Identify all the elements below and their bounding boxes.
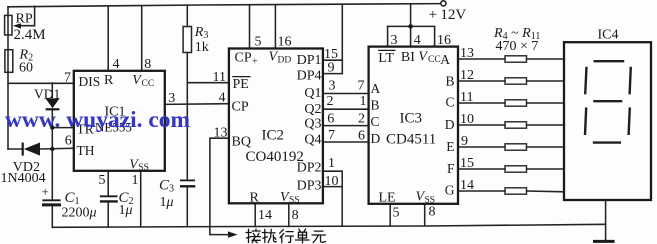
svg-text:2200μ: 2200μ [62, 206, 97, 221]
wire DP4 pin9 [323, 73, 342, 75]
node RP wiper arrow [13, 23, 21, 28]
svg-text:D: D [371, 131, 381, 146]
capacitor C3 plate top [180, 179, 195, 181]
svg-text:+: + [429, 7, 437, 23]
svg-text:D: D [445, 117, 455, 132]
wire TH to C1 [51, 149, 53, 199]
wire left rail [7, 7, 9, 149]
wire RP wiper [20, 6, 35, 25]
wire seg A to IC4 [527, 58, 565, 60]
wire IC3 top bus [388, 25, 435, 27]
svg-text:12V: 12V [440, 7, 466, 23]
svg-text:CP: CP [235, 51, 252, 66]
svg-text:8: 8 [292, 208, 299, 223]
svg-text:VD1: VD1 [34, 86, 60, 101]
svg-text:60: 60 [19, 60, 33, 75]
svg-text:SS: SS [138, 163, 149, 173]
svg-text:SS: SS [289, 195, 300, 205]
diode VD2 cathode bar [22, 143, 24, 156]
svg-text:IC3: IC3 [400, 111, 423, 127]
wire rail to VD2 [8, 148, 23, 150]
wire segment g [593, 100, 622, 102]
svg-text:6: 6 [327, 112, 334, 127]
svg-text:13: 13 [460, 46, 474, 61]
wire seg D [458, 124, 505, 126]
wire seg G to IC4 [527, 190, 565, 193]
wire DP1/DP4 feeder to rail [341, 4, 343, 73]
svg-text:CO40192: CO40192 [246, 149, 304, 165]
wire IC1 pin3 out to CP [165, 103, 229, 106]
svg-text:C: C [371, 114, 380, 129]
svg-text:5: 5 [99, 173, 106, 188]
svg-text:11: 11 [213, 70, 226, 85]
svg-text:13: 13 [214, 126, 228, 141]
svg-text:Q1: Q1 [304, 86, 321, 101]
wire DP3 pin10 [323, 186, 342, 188]
wire Q1 to A [323, 93, 369, 95]
resistor R6 [505, 100, 527, 106]
wire top +12V rail [8, 4, 441, 7]
svg-text:G: G [445, 183, 455, 198]
svg-text:CC: CC [142, 79, 155, 89]
svg-text:Q3: Q3 [304, 117, 321, 132]
wire IC1 pin1 to ground [140, 171, 142, 227]
wire segment d [593, 141, 621, 143]
svg-text:+: + [42, 184, 49, 199]
node junction TR [50, 125, 54, 129]
wire rail to R3 [186, 5, 188, 26]
resistor RP [5, 15, 12, 35]
svg-text:F: F [447, 161, 455, 176]
op-amp U1 boxes: IC outline rectangles [74, 42, 651, 204]
resistor R5 [505, 78, 527, 84]
svg-text:14: 14 [258, 208, 272, 223]
svg-text:LE: LE [379, 191, 396, 206]
svg-text:C: C [445, 95, 454, 110]
diode VD2 [24, 143, 40, 156]
wire IC3 pin3 [387, 26, 389, 46]
svg-text:www. wuyazi. com: www. wuyazi. com [5, 107, 190, 132]
resistor R3 [183, 27, 191, 53]
svg-text:8: 8 [429, 205, 436, 220]
svg-text:5: 5 [393, 206, 400, 221]
wire IC3 pin4 [410, 26, 412, 46]
wire VD1 drop [51, 83, 53, 99]
wire IC4 common to ground [605, 200, 607, 240]
hanzi jie [246, 229, 261, 243]
svg-text:DD: DD [278, 55, 292, 65]
wire IC3 pin5 LE to ground [389, 204, 391, 226]
wire DP2 pin1 [323, 170, 342, 172]
svg-text:PE: PE [233, 77, 249, 92]
wire VD1 to TR [51, 110, 53, 128]
svg-text:9: 9 [461, 134, 468, 149]
svg-text:2: 2 [358, 111, 365, 126]
svg-text:4: 4 [113, 57, 120, 72]
wire IC3 pin16 [434, 26, 436, 46]
svg-text:1: 1 [132, 173, 139, 188]
capacitor C1 plate bottom [42, 203, 61, 206]
svg-text:R: R [250, 191, 260, 206]
op-amp U4 IC4 display box [564, 42, 651, 200]
svg-text:LT: LT [378, 51, 394, 66]
wire segment e [585, 107, 586, 135]
resistor R2 [5, 50, 13, 73]
svg-text:R: R [104, 73, 114, 88]
svg-text:DP2: DP2 [297, 160, 322, 175]
svg-text:B: B [371, 98, 380, 113]
svg-text:1: 1 [360, 94, 367, 109]
hanzi xing [280, 230, 294, 243]
capacitor C1 plate top [42, 199, 60, 201]
wire seg G [458, 190, 505, 192]
svg-text:1N4004: 1N4004 [1, 171, 46, 186]
wire BQ pin13 [210, 138, 230, 234]
svg-text:4: 4 [219, 91, 226, 106]
svg-text:DP3: DP3 [297, 179, 322, 194]
svg-text:4: 4 [414, 33, 421, 48]
wire seg E to IC4 [527, 146, 565, 148]
svg-text:1μ: 1μ [160, 195, 174, 210]
resistor R9 [505, 166, 527, 172]
wire Q2 to B [323, 108, 369, 110]
svg-text:E: E [446, 139, 454, 154]
wire seg F [458, 168, 505, 170]
svg-text:V: V [418, 50, 428, 65]
wire PE pin11 [187, 82, 229, 84]
svg-text:6: 6 [65, 134, 72, 149]
wire C2 to ground rail [107, 203, 109, 227]
svg-text:7: 7 [358, 78, 365, 93]
wire seg A [458, 58, 505, 60]
wire seg B to IC4 [527, 80, 565, 82]
svg-text:DP1: DP1 [297, 53, 322, 68]
wire segment a [594, 60, 625, 62]
wire R3 to PE node [186, 53, 188, 180]
svg-text:DIS: DIS [79, 74, 101, 89]
hanzi zhi [262, 229, 276, 242]
wire DP1 pin15 [323, 59, 342, 61]
svg-text:2.4M: 2.4M [14, 27, 46, 43]
svg-text:1k: 1k [195, 40, 209, 55]
svg-text:A: A [440, 52, 450, 67]
hanzi yuan [312, 231, 326, 242]
svg-text:6: 6 [358, 128, 365, 143]
capacitor C2 plate top [100, 195, 118, 197]
svg-text:8: 8 [144, 57, 151, 72]
svg-text:10: 10 [325, 174, 339, 189]
wire seg F to IC4 [527, 168, 565, 170]
svg-text:CC: CC [428, 55, 441, 65]
wire segment f [585, 67, 586, 95]
resistor R4 [505, 56, 527, 62]
wire seg B [458, 80, 505, 82]
svg-text:RP: RP [16, 11, 33, 26]
wire IC3 supply feeder [410, 4, 412, 26]
wire LT overline [378, 49, 395, 51]
resistor R10 [505, 188, 527, 194]
wire IC2 pin5 [249, 5, 251, 49]
svg-text:IC4: IC4 [598, 28, 619, 43]
resistor R8 [505, 144, 527, 150]
wire DP2/DP3 to ground [341, 171, 343, 226]
svg-text:1: 1 [328, 156, 335, 171]
diode VD1 cathode bar [46, 108, 60, 110]
op-amp U2 IC2 CO40192 box [229, 49, 323, 204]
node junction TH [50, 147, 54, 151]
wire bottom ground rail [52, 224, 605, 227]
op-amp U3 IC3 CD4511 box [369, 47, 458, 204]
svg-text:CD4511: CD4511 [386, 132, 436, 148]
svg-text:12: 12 [460, 68, 474, 83]
capacitor C3 plate bottom [180, 185, 195, 187]
svg-text:Q4: Q4 [304, 133, 321, 148]
wire seg E [458, 146, 505, 148]
svg-text:11: 11 [460, 90, 473, 105]
op-amp U1 IC1 NE555 box [74, 71, 165, 171]
wire seg D to IC4 [527, 124, 565, 126]
wire DIS pin7 [8, 82, 74, 84]
7-segment digit of IC4 [585, 61, 631, 142]
wire segment b [630, 67, 631, 95]
ground [593, 240, 615, 243]
svg-text:16: 16 [437, 33, 451, 48]
diode VD1 [46, 99, 60, 109]
wire PE overline [232, 76, 250, 78]
wire TH pin6 [40, 147, 74, 150]
svg-text:15: 15 [460, 156, 474, 171]
wire Q3 to C [323, 125, 369, 127]
svg-text:7: 7 [64, 70, 71, 85]
node BQ arrowhead [228, 231, 238, 237]
wire seg C to IC4 [527, 102, 565, 104]
wire IC1 pin4 reset [107, 6, 109, 71]
svg-text:+: + [252, 57, 258, 68]
svg-text:2: 2 [327, 94, 334, 109]
svg-text:CP: CP [232, 100, 249, 115]
svg-text:IC2: IC2 [262, 128, 285, 144]
wire IC3 pin8 vss to ground [424, 204, 426, 226]
wire C1 to ground rail [51, 206, 53, 227]
wire IC2 pin8 to ground [288, 203, 290, 226]
wire seg C [458, 102, 505, 104]
wire segment c [629, 107, 630, 135]
wire IC1 pin5 to C2 [107, 171, 109, 196]
svg-text:Q2: Q2 [304, 102, 321, 117]
svg-text:3: 3 [329, 79, 336, 94]
wire TR pin2 [52, 127, 74, 129]
svg-text:TH: TH [77, 143, 95, 158]
svg-text:5: 5 [255, 35, 262, 50]
svg-text:9: 9 [328, 60, 335, 75]
svg-text:10: 10 [460, 112, 474, 127]
wire IC2 pin14 to ground [254, 203, 256, 226]
svg-text:3: 3 [168, 91, 175, 106]
svg-text:16: 16 [278, 35, 292, 50]
wire TR-TH link [51, 128, 53, 149]
svg-text:DP4: DP4 [297, 69, 322, 84]
svg-text:B: B [445, 74, 454, 89]
wire IC2 pin16 [274, 5, 276, 49]
node +12V terminal [441, 1, 446, 6]
svg-text:BI: BI [401, 50, 415, 65]
svg-text:7: 7 [328, 128, 335, 143]
svg-text:14: 14 [460, 178, 474, 193]
svg-text:A: A [371, 81, 381, 96]
svg-text:1μ: 1μ [119, 203, 133, 218]
svg-text:3: 3 [391, 33, 398, 48]
node junction IC3 bus [408, 24, 413, 29]
node execute-unit hanzi text 接执行单元 [246, 229, 326, 243]
capacitor C2 plate bottom [100, 200, 118, 202]
resistor R7 [505, 122, 527, 128]
wire IC1 pin8 vcc [141, 6, 143, 71]
hanzi dan [295, 229, 309, 243]
wire Q4 to D [323, 141, 369, 143]
wire C3 to ground rail [186, 188, 188, 227]
svg-text:BQ: BQ [232, 135, 251, 150]
svg-text:470 × 7: 470 × 7 [496, 39, 539, 54]
